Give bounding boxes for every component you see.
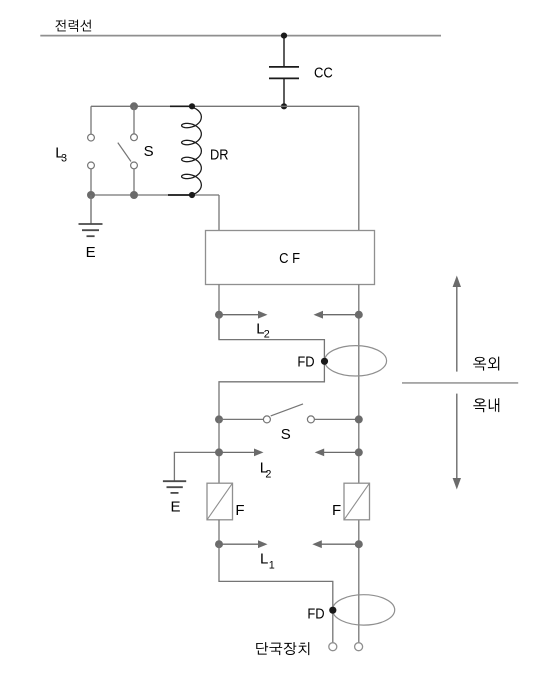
wire: power line — [40, 35, 441, 37]
node: L2 row2 right junction with arrow — [315, 448, 363, 456]
terminal circle right — [355, 643, 363, 651]
svg-text:DR: DR — [210, 146, 229, 163]
label L3 — [55, 145, 67, 165]
svg-text:CC: CC — [314, 64, 333, 81]
label 옥내 (indoor) — [473, 398, 499, 412]
node: FD tap (black) — [321, 358, 328, 365]
wire: left branch continues — [218, 419, 220, 483]
label 단국장치 (terminal equipment) — [256, 642, 309, 655]
terminal circle left — [329, 643, 337, 651]
label L2 (row2) — [260, 460, 272, 481]
svg-text:L: L — [260, 551, 268, 568]
wire: bottom bus y=195 — [91, 194, 219, 196]
label 전력선 (power line) — [55, 20, 91, 32]
node: L3 bottom junction — [87, 191, 95, 199]
fuse F (left) — [207, 483, 233, 520]
node: L2 row2 left junction with arrow — [215, 448, 264, 456]
node: L1 row right junction with arrow — [312, 540, 363, 548]
node: S bottom junction — [130, 191, 138, 199]
svg-text:C F: C F — [279, 250, 300, 267]
node: L1 row left junction with arrow — [215, 540, 268, 548]
switch S (top) — [118, 102, 138, 195]
svg-text:F: F — [235, 502, 244, 519]
switch S (middle) — [215, 404, 363, 424]
svg-text:F: F — [332, 502, 341, 519]
label L1 — [260, 551, 275, 572]
inductor DR (drain coil) — [168, 103, 201, 198]
wire: right branch down to CF — [358, 106, 360, 230]
transformer FD (outdoor loop) — [325, 346, 387, 376]
node: L2 row1 left junction with arrow — [215, 311, 268, 319]
wire: jog through FD coupling (outdoor) — [219, 315, 324, 420]
wire: left branch below F — [218, 520, 220, 544]
ground E (under L3) — [79, 195, 103, 236]
wire: horizontal bus y=106 — [91, 105, 359, 107]
node: FD tap lower (black) — [329, 607, 336, 614]
fuse F (right) — [344, 483, 370, 520]
ground E (indoor) — [163, 481, 186, 493]
svg-text:E: E — [171, 499, 181, 516]
capacitor CC — [269, 36, 299, 107]
wire: left branch below CF — [218, 285, 220, 340]
wire: DR bottom to CF top — [218, 195, 220, 231]
node: CC bottom junction — [281, 103, 287, 109]
svg-text:1: 1 — [269, 560, 275, 572]
node: power line tap junction — [281, 33, 287, 39]
transformer FD (indoor loop) — [333, 595, 395, 625]
annotation: outdoor/indoor divider — [402, 382, 518, 384]
wire: right branch below CF (long) — [358, 285, 360, 643]
wire: ground tap to E — [174, 452, 219, 480]
connector L3 (two open contacts) — [88, 106, 95, 195]
svg-text:FD: FD — [307, 605, 324, 622]
svg-text:S: S — [144, 143, 154, 160]
node: L2 row1 right junction with arrow — [314, 311, 363, 319]
svg-text:S: S — [281, 426, 291, 443]
block CF (coupling filter) — [206, 231, 375, 285]
svg-text:2: 2 — [264, 329, 270, 341]
svg-text:FD: FD — [297, 354, 314, 371]
wire: jog to terminal FD (indoor) — [219, 544, 333, 643]
svg-text:3: 3 — [61, 153, 67, 165]
annotation: vertical double arrow — [453, 276, 461, 490]
label L2 (row1) — [256, 321, 270, 341]
svg-text:2: 2 — [265, 469, 271, 481]
label 옥외 (outdoor) — [473, 357, 499, 371]
svg-text:E: E — [86, 244, 96, 261]
